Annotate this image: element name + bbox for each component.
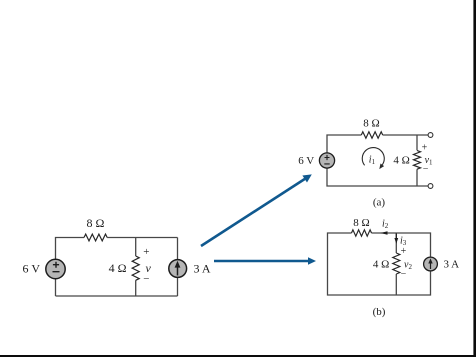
svg-text:8 Ω: 8 Ω xyxy=(353,217,369,229)
resistor 4ohm (left circuit) xyxy=(132,256,139,280)
wire: left circuit bottom side xyxy=(56,295,178,297)
svg-text:i1: i1 xyxy=(369,154,376,166)
terminal node top (circuit a) xyxy=(428,133,433,138)
wire: circuit a bottom side xyxy=(327,161,431,186)
svg-text:−: − xyxy=(423,164,429,175)
svg-text:6 V: 6 V xyxy=(298,155,314,167)
resistor 8ohm (circuit a) xyxy=(361,132,382,138)
svg-text:4 Ω: 4 Ω xyxy=(109,261,127,275)
arrow: original to circuit a xyxy=(201,174,312,246)
resistor 8ohm (circuit b) xyxy=(352,230,372,236)
resistor 4ohm (circuit a) xyxy=(414,151,421,170)
wire: circuit b outline xyxy=(328,233,431,295)
svg-text:(b): (b) xyxy=(373,306,386,318)
svg-text:4 Ω: 4 Ω xyxy=(393,154,409,166)
wire: left circuit right side xyxy=(177,238,179,297)
svg-text:8 Ω: 8 Ω xyxy=(363,117,379,129)
wire: circuit b middle branch xyxy=(395,233,397,295)
voltage source 6V (circuit a) xyxy=(319,153,334,168)
svg-text:6 V: 6 V xyxy=(23,262,41,276)
wire: circuit a 4ohm branch xyxy=(416,135,418,186)
resistor 8ohm (left circuit) xyxy=(84,234,107,241)
svg-text:4 Ω: 4 Ω xyxy=(373,259,389,271)
svg-text:+: + xyxy=(422,143,428,154)
svg-text:(a): (a) xyxy=(373,196,386,208)
wire: left circuit top side xyxy=(56,238,178,297)
wire: left circuit middle branch xyxy=(135,238,137,297)
svg-text:−: − xyxy=(401,269,407,280)
resistor 4ohm (circuit b) xyxy=(393,253,400,274)
svg-text:−: − xyxy=(143,273,149,285)
svg-text:+: + xyxy=(143,246,149,258)
current source I1 3A (left circuit) xyxy=(169,260,187,278)
svg-text:i2: i2 xyxy=(382,219,389,231)
voltage source V1 6V (left circuit) xyxy=(46,259,65,278)
mesh current arrow i1 (circuit a) xyxy=(362,148,384,170)
current arrow i2 (circuit b) xyxy=(380,231,387,235)
arrow: original to circuit b xyxy=(214,257,316,264)
wire: circuit a top side xyxy=(327,135,431,161)
svg-text:3 A: 3 A xyxy=(194,261,211,275)
svg-text:+: + xyxy=(401,246,407,257)
svg-text:8 Ω: 8 Ω xyxy=(87,216,105,230)
page right edge line xyxy=(473,0,476,357)
current arrow i3 (circuit b) xyxy=(395,234,397,240)
page bottom edge line xyxy=(0,355,476,357)
terminal node bottom (circuit a) xyxy=(428,184,433,189)
svg-text:3 A: 3 A xyxy=(444,259,460,271)
current source 3A (circuit b) xyxy=(424,257,438,271)
